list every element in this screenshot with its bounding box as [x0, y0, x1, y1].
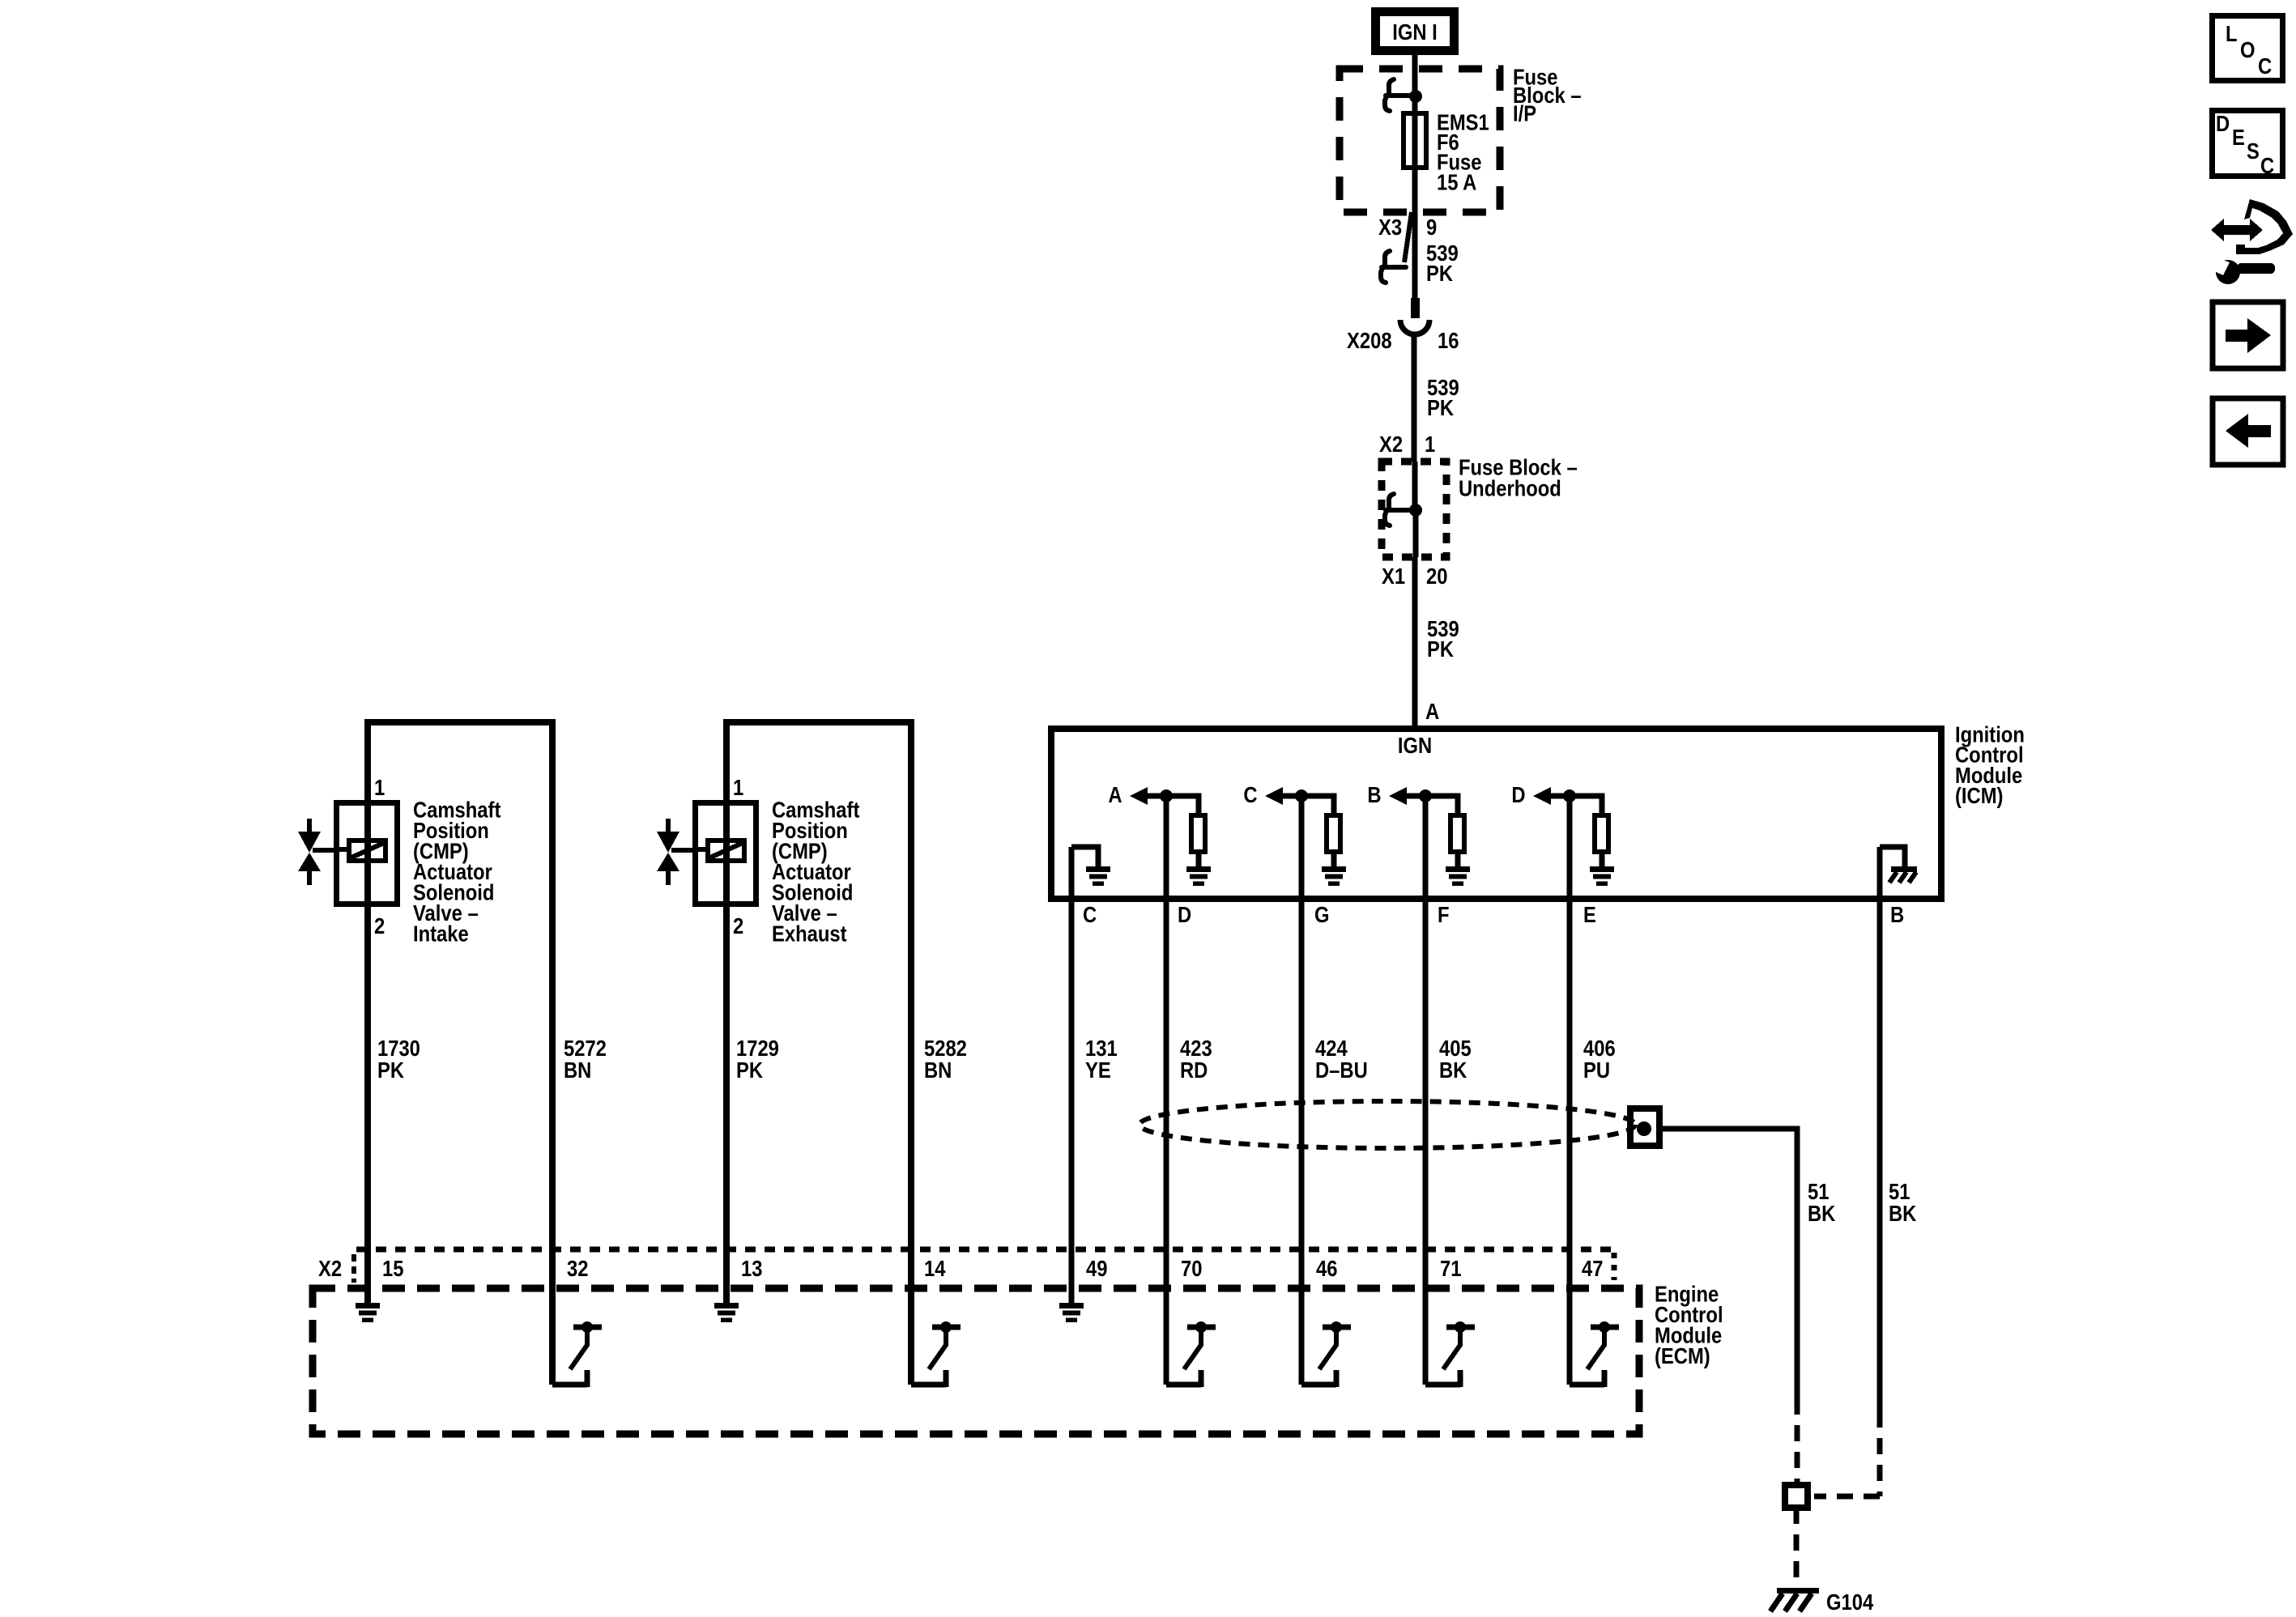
ECM connector dotted line X2: [356, 1247, 1614, 1253]
svg-text:X2: X2: [318, 1255, 342, 1281]
svg-text:15 A: 15 A: [1437, 169, 1477, 195]
ICM name label: [1955, 721, 2025, 808]
ICM coil driver D (resistor to ground): [1511, 781, 1614, 886]
ECM name label: [1655, 1280, 1723, 1368]
ground at ECM pin 13: [714, 1303, 739, 1322]
ICM coil driver C (resistor to ground): [1243, 781, 1346, 886]
ground at ECM pin 49: [1059, 1303, 1084, 1322]
ICM pin G label: [1314, 901, 1330, 927]
svg-text:D: D: [1178, 901, 1191, 927]
svg-text:S: S: [2247, 138, 2260, 164]
svg-text:B: B: [1890, 901, 1904, 927]
fuse block underhood label: [1459, 453, 1578, 500]
svg-text:C: C: [1083, 901, 1097, 927]
svg-text:E: E: [2232, 124, 2245, 150]
svg-text:IGN: IGN: [1398, 732, 1432, 758]
ECM pin 13 label: [741, 1255, 762, 1281]
fuse EMS1 F6 15A: [1404, 113, 1426, 168]
wire through fuse block bottom: [1412, 168, 1418, 298]
svg-text:BN: BN: [564, 1057, 591, 1083]
svg-text:BK: BK: [1889, 1200, 1917, 1226]
svg-text:G104: G104: [1826, 1589, 1874, 1615]
connector X3 pin 9: [1378, 212, 1437, 283]
svg-text:PK: PK: [1427, 636, 1454, 662]
ECM pin 14 label: [924, 1255, 946, 1281]
wire 424 D-BU (ICM pin G): [1299, 796, 1305, 1385]
svg-text:1: 1: [374, 774, 385, 800]
wire 539 PK from underhood block to ICM pin A: [1415, 510, 1416, 729]
svg-text:X1: X1: [1382, 563, 1405, 589]
ICM pin A label: [1425, 698, 1439, 724]
driver switch at ECM pin 71: [1425, 1321, 1475, 1387]
svg-text:2: 2: [733, 913, 743, 938]
wire label 5272 BN: [564, 1035, 607, 1083]
svg-text:1: 1: [1425, 431, 1435, 457]
svg-text:I/P: I/P: [1513, 100, 1536, 126]
in-line connector X208 pin 16: [1347, 298, 1459, 353]
svg-text:X3: X3: [1378, 214, 1402, 240]
driver switch at ECM pin 14: [911, 1321, 961, 1387]
power feed IGN I: [1371, 7, 1459, 55]
svg-text:C: C: [2258, 53, 2272, 79]
engine control module ECM dashed box: [313, 1288, 1639, 1434]
forward arrow icon: [2213, 302, 2283, 368]
svg-text:15: 15: [382, 1255, 403, 1281]
ECM pin 15 label: [382, 1255, 403, 1281]
ICM coil driver A (resistor to ground): [1108, 781, 1211, 886]
svg-text:RD: RD: [1180, 1057, 1208, 1083]
ICM pin C label: [1083, 901, 1097, 927]
back arrow icon: [2213, 398, 2283, 465]
svg-text:PU: PU: [1583, 1057, 1610, 1083]
svg-text:70: 70: [1181, 1255, 1202, 1281]
wire 539 PK to underhood fuse block: [1414, 333, 1415, 510]
fuse block underhood dashed box: [1382, 462, 1446, 557]
camshaft position actuator solenoid valve - exhaust (with wires 1729 PK / 5282 BN): [657, 722, 911, 1385]
wire 423 RD (ICM pin D): [1164, 796, 1169, 1385]
svg-text:1: 1: [733, 774, 743, 800]
wire label 1730 PK: [377, 1035, 420, 1083]
svg-text:F: F: [1438, 901, 1450, 927]
ICM pin E label: [1583, 901, 1596, 927]
ignition control module ICM box: [1051, 729, 1941, 899]
ICM pin D label: [1178, 901, 1191, 927]
svg-text:Intake: Intake: [413, 920, 469, 946]
ground G104: [1770, 1588, 1819, 1611]
wire label 539 PK: [1426, 240, 1459, 286]
shield splice box: [1630, 1108, 1659, 1146]
ICM internal ground (pin C): [1071, 847, 1110, 886]
DESC icon: [2213, 110, 2283, 178]
switch contact hook inside fuse block I/P: [1385, 79, 1410, 111]
wire 406 PU (ICM pin E): [1567, 796, 1573, 1385]
svg-text:A: A: [1108, 781, 1122, 807]
svg-text:BK: BK: [1808, 1200, 1836, 1226]
wire label 51 BK (pin B): [1889, 1178, 1917, 1226]
wire label 423 RD: [1180, 1035, 1212, 1083]
LOC icon: [2213, 16, 2283, 81]
drain wire to ground: [1663, 1129, 1797, 1398]
svg-text:71: 71: [1440, 1255, 1461, 1281]
CMP exhaust label: [772, 796, 860, 946]
connector X2 pin 1: [1379, 431, 1435, 457]
connector X2 label: [318, 1254, 354, 1283]
svg-text:X2: X2: [1379, 431, 1403, 457]
svg-text:46: 46: [1316, 1255, 1337, 1281]
ICM coil driver B (resistor to ground): [1367, 781, 1470, 886]
svg-text:13: 13: [741, 1255, 762, 1281]
svg-text:BK: BK: [1439, 1057, 1467, 1083]
svg-text:PK: PK: [1426, 260, 1453, 286]
driver switch at ECM pin 70: [1166, 1321, 1216, 1387]
svg-text:2: 2: [374, 913, 385, 938]
ground junction block: [1785, 1485, 1808, 1508]
G104 label: [1826, 1589, 1874, 1615]
ground at ECM pin 15: [356, 1303, 380, 1322]
camshaft position actuator solenoid valve - intake (with wires 1730 PK / 5272 BN): [298, 722, 552, 1385]
diagnostic wrench icon: [2209, 199, 2293, 284]
IGN bus label: [1398, 732, 1432, 758]
driver switch at ECM pin 46: [1301, 1321, 1351, 1387]
svg-text:9: 9: [1426, 214, 1437, 240]
wire label 1729 PK: [736, 1035, 779, 1083]
wire 131 YE (ICM pin C): [1069, 847, 1075, 1304]
svg-text:D–BU: D–BU: [1315, 1057, 1368, 1083]
svg-text:C: C: [1243, 781, 1257, 807]
wire label 406 PU: [1583, 1035, 1616, 1083]
ECM pin 71 label: [1440, 1255, 1461, 1281]
fuse block I/P dashed box: [1340, 69, 1500, 212]
ECM pin 46 label: [1316, 1255, 1337, 1281]
junction node in fuse block I/P: [1409, 90, 1422, 103]
svg-text:A: A: [1425, 698, 1439, 724]
svg-text:PK: PK: [1427, 394, 1454, 420]
ICM pin B label: [1890, 901, 1904, 927]
ECM pin 32 label: [567, 1255, 588, 1281]
ICM internal chassis ground (pin B): [1880, 847, 1917, 883]
svg-text:IGN I: IGN I: [1392, 19, 1438, 45]
svg-text:X208: X208: [1347, 327, 1392, 353]
svg-text:C: C: [2260, 152, 2274, 178]
svg-text:YE: YE: [1085, 1057, 1111, 1083]
svg-text:PK: PK: [377, 1057, 404, 1083]
CMP intake label: [413, 796, 501, 946]
fuse block I/P label: [1513, 63, 1582, 126]
svg-text:PK: PK: [736, 1057, 763, 1083]
fuse value label: [1437, 109, 1489, 194]
svg-text:Exhaust: Exhaust: [772, 920, 847, 946]
svg-text:(ECM): (ECM): [1655, 1343, 1710, 1368]
svg-text:B: B: [1367, 781, 1381, 807]
ECM pin 49 label: [1086, 1255, 1107, 1281]
twisted-pair shield ellipse: [1139, 1101, 1635, 1148]
wire 539 PK from IGN I into Fuse Block I/P: [1412, 55, 1418, 111]
wire 405 BK (ICM pin F): [1423, 796, 1429, 1385]
svg-text:O: O: [2240, 36, 2256, 62]
svg-text:BN: BN: [924, 1057, 952, 1083]
ECM pin 70 label: [1181, 1255, 1202, 1281]
svg-text:(ICM): (ICM): [1955, 782, 2003, 808]
svg-text:20: 20: [1426, 563, 1447, 589]
connector X1 pin 20: [1382, 563, 1447, 589]
svg-text:D: D: [1511, 781, 1525, 807]
svg-text:E: E: [1583, 901, 1596, 927]
svg-text:14: 14: [924, 1255, 946, 1281]
wire label 539 PK: [1427, 615, 1459, 662]
ICM pin F label: [1438, 901, 1450, 927]
switch contact hook inside underhood block: [1385, 494, 1410, 526]
svg-text:16: 16: [1438, 327, 1459, 353]
svg-text:Underhood: Underhood: [1459, 474, 1561, 500]
wire label 51 BK (drain): [1808, 1178, 1836, 1226]
svg-text:L: L: [2226, 20, 2238, 46]
wire 51 BK (ICM pin B): [1877, 847, 1883, 1411]
svg-text:47: 47: [1582, 1255, 1603, 1281]
svg-text:32: 32: [567, 1255, 588, 1281]
junction node in underhood block: [1409, 504, 1422, 517]
wire label 5282 BN: [924, 1035, 967, 1083]
driver switch at ECM pin 47: [1570, 1321, 1619, 1387]
svg-text:G: G: [1314, 901, 1330, 927]
wire label 405 BK: [1439, 1035, 1472, 1083]
wire label 539 PK: [1427, 374, 1459, 420]
wire label 424 D&#8211;BU: [1315, 1035, 1368, 1083]
dashed wire to G104: [1794, 1508, 1800, 1585]
wire label 131 YE: [1085, 1035, 1118, 1083]
driver switch at ECM pin 32: [552, 1321, 602, 1387]
ECM pin 47 label: [1582, 1255, 1603, 1281]
svg-text:49: 49: [1086, 1255, 1107, 1281]
svg-text:D: D: [2216, 110, 2230, 136]
